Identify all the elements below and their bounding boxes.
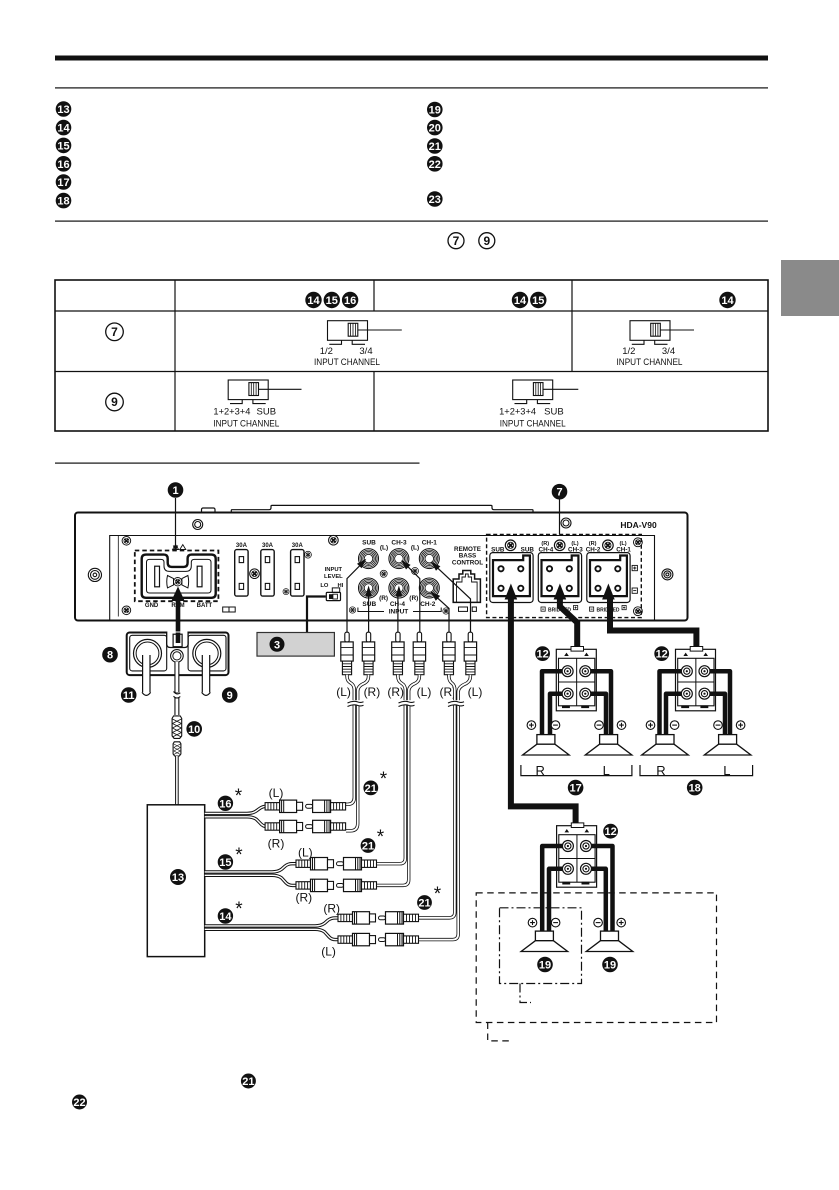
svg-text:1/2: 1/2 <box>622 346 635 357</box>
svg-text:CH-2: CH-2 <box>420 601 436 608</box>
svg-text:*: * <box>380 769 388 790</box>
svg-text:19: 19 <box>429 105 441 117</box>
svg-text:INPUT CHANNEL: INPUT CHANNEL <box>314 357 380 368</box>
svg-text:L: L <box>603 763 610 778</box>
svg-text:(R): (R) <box>387 685 404 699</box>
svg-text:16: 16 <box>344 295 356 307</box>
svg-text:13: 13 <box>172 872 184 884</box>
svg-text:12: 12 <box>656 649 668 661</box>
svg-text:14: 14 <box>721 295 734 307</box>
svg-text:19: 19 <box>539 960 551 972</box>
svg-text:(L): (L) <box>298 846 313 860</box>
svg-text:R: R <box>656 763 665 778</box>
svg-text:(R): (R) <box>379 595 388 602</box>
svg-text:(R): (R) <box>268 837 285 851</box>
svg-text:R: R <box>536 763 545 778</box>
svg-text:7: 7 <box>556 487 562 499</box>
svg-text:15: 15 <box>57 140 69 152</box>
svg-text:(L): (L) <box>321 945 336 959</box>
svg-text:(L): (L) <box>411 545 419 552</box>
svg-text:(L): (L) <box>336 685 351 699</box>
svg-text:1+2+3+4: 1+2+3+4 <box>213 407 250 418</box>
svg-text:19: 19 <box>604 960 616 972</box>
svg-text:18: 18 <box>689 783 701 795</box>
svg-text:*: * <box>235 786 243 807</box>
svg-text:12: 12 <box>604 826 616 838</box>
svg-text:1+2+3+4: 1+2+3+4 <box>499 407 536 418</box>
svg-text:15: 15 <box>219 857 231 869</box>
svg-text:(R): (R) <box>409 595 418 602</box>
svg-text:1/2: 1/2 <box>320 346 333 357</box>
svg-text:*: * <box>377 827 385 848</box>
svg-text:1: 1 <box>172 485 178 497</box>
svg-text:GND: GND <box>145 603 159 609</box>
svg-text:3: 3 <box>274 639 280 651</box>
svg-text:11: 11 <box>123 690 135 702</box>
svg-text:LO: LO <box>320 583 329 589</box>
svg-text:7: 7 <box>111 325 118 339</box>
svg-text:21: 21 <box>418 898 430 910</box>
svg-text:3/4: 3/4 <box>662 346 675 357</box>
svg-text:15: 15 <box>532 295 544 307</box>
svg-text:L: L <box>723 763 730 778</box>
svg-text:(R): (R) <box>364 685 381 699</box>
svg-text:21: 21 <box>362 841 374 853</box>
svg-text:21: 21 <box>365 783 377 795</box>
svg-text:9: 9 <box>483 234 490 248</box>
svg-text:BATT: BATT <box>197 603 213 609</box>
svg-text:SUB: SUB <box>257 407 277 418</box>
svg-text:(R): (R) <box>323 902 340 916</box>
svg-text:(L): (L) <box>468 685 483 699</box>
svg-text:INPUT CHANNEL: INPUT CHANNEL <box>500 419 566 430</box>
svg-text:7: 7 <box>453 234 460 248</box>
svg-text:16: 16 <box>219 798 231 810</box>
svg-text:14: 14 <box>514 295 527 307</box>
svg-text:21: 21 <box>242 1076 254 1088</box>
svg-text:SUB: SUB <box>544 407 564 418</box>
svg-text:CH-1: CH-1 <box>422 540 438 547</box>
svg-text:30A: 30A <box>236 543 248 549</box>
svg-text:(L): (L) <box>269 786 284 800</box>
svg-text:30A: 30A <box>292 543 304 549</box>
svg-text:CH-3: CH-3 <box>391 540 407 547</box>
svg-text:13: 13 <box>57 104 69 116</box>
svg-text:(R): (R) <box>295 891 312 905</box>
svg-text:8: 8 <box>107 650 113 662</box>
svg-text:SUB: SUB <box>362 540 376 547</box>
svg-text:16: 16 <box>57 159 69 171</box>
svg-text:14: 14 <box>57 123 70 135</box>
svg-text:9: 9 <box>227 690 233 702</box>
svg-text:*: * <box>235 899 243 920</box>
svg-text:15: 15 <box>326 295 338 307</box>
svg-text:HDA-V90: HDA-V90 <box>620 520 657 530</box>
svg-text:INPUT CHANNEL: INPUT CHANNEL <box>617 357 683 368</box>
svg-text:*: * <box>235 845 243 866</box>
svg-text:INPUT: INPUT <box>389 609 409 616</box>
svg-text:14: 14 <box>307 295 320 307</box>
svg-text:17: 17 <box>569 783 581 795</box>
svg-text:18: 18 <box>57 196 69 208</box>
svg-text:9: 9 <box>111 395 118 409</box>
svg-text:20: 20 <box>429 123 441 135</box>
svg-text:21: 21 <box>429 141 441 153</box>
svg-text:INPUT: INPUT <box>325 567 343 573</box>
svg-text:3/4: 3/4 <box>359 346 372 357</box>
svg-text:12: 12 <box>536 649 548 661</box>
svg-text:(L): (L) <box>417 685 432 699</box>
svg-text:17: 17 <box>57 177 69 189</box>
svg-text:22: 22 <box>73 1097 85 1109</box>
svg-text:INPUT CHANNEL: INPUT CHANNEL <box>213 419 279 430</box>
svg-text:14: 14 <box>219 911 232 923</box>
svg-text:BASS: BASS <box>459 553 477 560</box>
svg-text:22: 22 <box>429 159 441 171</box>
svg-text:*: * <box>434 884 442 905</box>
svg-text:SUB: SUB <box>362 601 376 608</box>
svg-text:(L): (L) <box>380 545 388 552</box>
svg-text:23: 23 <box>429 194 441 206</box>
svg-text:LEVEL: LEVEL <box>324 574 343 580</box>
svg-text:10: 10 <box>188 724 200 736</box>
svg-text:CONTROL: CONTROL <box>452 560 483 567</box>
svg-text:30A: 30A <box>262 543 274 549</box>
